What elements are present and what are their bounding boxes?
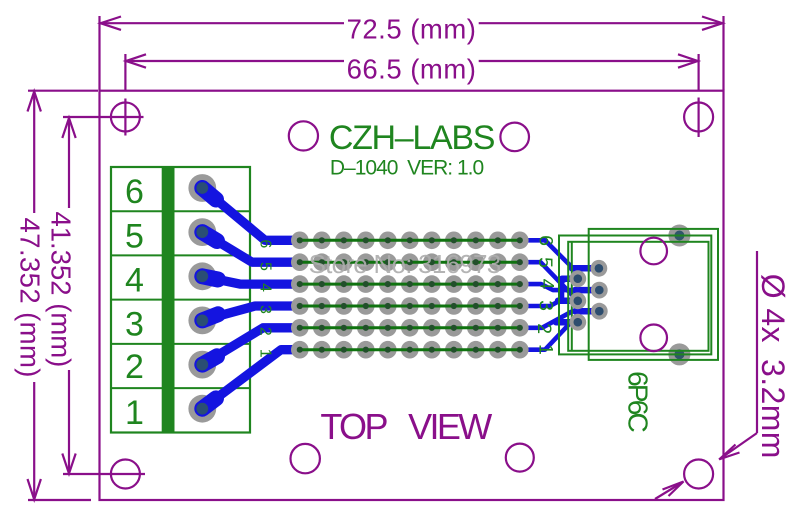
svg-text:2: 2 <box>257 327 274 336</box>
wire: dim line 66.5 right segment <box>479 60 697 62</box>
wire: second leader from board edge <box>655 483 682 500</box>
svg-text:CZH–LABS: CZH–LABS <box>329 119 495 157</box>
wire: dim line 41.352 top segment <box>68 121 70 208</box>
svg-text:4: 4 <box>257 283 274 292</box>
mounting hole top-right <box>684 103 713 132</box>
trace row3 to pin B2 <box>520 284 600 290</box>
fiducial circle left of CZH-LABS <box>289 121 318 150</box>
jack mounting pad top <box>668 225 690 247</box>
jack inner body rect <box>568 242 708 351</box>
terminal pads gray <box>188 174 216 423</box>
trace from terminal 3 to row 4 <box>202 306 300 320</box>
trace row6 to pin A3 <box>520 322 578 350</box>
jack post hole bottom <box>640 325 667 352</box>
pad grid drill centers <box>297 237 523 353</box>
svg-text:6P6C: 6P6C <box>623 371 654 432</box>
mounting hole bottom-left <box>111 460 140 489</box>
wire: dim line 41.352 bottom segment <box>68 370 70 470</box>
wire: left extension of 66.5 dim <box>124 54 126 91</box>
arrowhead at bottom-right hole (upper) <box>720 445 740 460</box>
wire: dim line 72.5 left segment <box>101 22 344 24</box>
arrowhead 66.5 left <box>126 54 146 67</box>
terminal block green bar <box>162 166 175 434</box>
trace from terminal 5 to row 2 <box>202 232 300 262</box>
wire: 47.352 top extension line <box>28 90 98 92</box>
svg-text:5: 5 <box>257 262 274 271</box>
svg-text:Ø 4x 3.2mm: Ø 4x 3.2mm <box>755 274 791 459</box>
row labels left (rotated) <box>257 239 274 357</box>
arrowhead 41.352 down <box>62 454 75 474</box>
svg-text:66.5 (mm): 66.5 (mm) <box>347 53 477 84</box>
fiducial circle right of CZH-LABS <box>500 123 529 152</box>
hole circle bottom-center-left <box>291 444 320 473</box>
terminal pad drill centers <box>196 182 208 415</box>
arrowhead 72.5 left <box>101 17 122 30</box>
svg-text:2: 2 <box>533 323 555 334</box>
mounting hole top-left <box>111 103 140 132</box>
svg-text:5: 5 <box>534 257 556 268</box>
jack body rect <box>559 236 711 355</box>
svg-text:6: 6 <box>125 173 144 211</box>
svg-text:4: 4 <box>536 279 558 290</box>
trace row4 to pin A2 <box>520 279 578 306</box>
svg-text:3: 3 <box>125 306 144 344</box>
wire: leader line of hole dim <box>756 251 758 433</box>
jack mounting pad bottom <box>668 343 690 365</box>
svg-text:6: 6 <box>257 239 274 248</box>
wire: right extension of 66.5 dim <box>697 54 699 91</box>
jack pin stubs <box>556 268 599 322</box>
arrowhead 41.352 up <box>62 118 75 138</box>
svg-text:2: 2 <box>125 348 144 386</box>
svg-text:1: 1 <box>257 349 274 358</box>
jack post hole top <box>640 238 667 265</box>
jack courtyard rect <box>589 229 718 360</box>
svg-text:Store No: 316973: Store No: 316973 <box>309 249 501 279</box>
svg-text:1: 1 <box>125 394 144 432</box>
arrowhead 72.5 right <box>702 17 723 30</box>
trace row1 to pin B1 <box>520 240 599 268</box>
trace from terminal 4 to row 3 <box>202 276 300 284</box>
trace from terminal 6 to row 1 <box>202 188 300 240</box>
hole circle bottom-center-right <box>506 444 534 472</box>
svg-text:72.5 (mm): 72.5 (mm) <box>347 14 477 45</box>
svg-text:1: 1 <box>535 344 557 355</box>
jack pin row line <box>571 242 573 351</box>
arrowhead 47.352 up <box>28 92 41 112</box>
trace from terminal 1 to row 6 <box>202 350 300 409</box>
svg-text:47.352 (mm): 47.352 (mm) <box>14 218 45 378</box>
trace row2 to pin A1 <box>520 262 578 301</box>
arrowhead 47.352 down <box>28 479 41 500</box>
svg-text:3: 3 <box>257 305 274 314</box>
svg-text:5: 5 <box>125 217 144 255</box>
wire: left extension line of 72.5 dim <box>98 16 100 90</box>
wire: 47.352 bottom extension line <box>28 499 91 501</box>
svg-text:D–1040 VER: 1.0: D–1040 VER: 1.0 <box>330 157 484 180</box>
row jumper wires (green) <box>297 240 522 349</box>
jack pin pads <box>569 260 607 331</box>
terminal block row dividers <box>111 210 250 212</box>
wire: dim line 47.352 top segment <box>33 92 35 213</box>
row labels right near jack (rotated) <box>533 235 558 355</box>
svg-text:41.352 (mm): 41.352 (mm) <box>45 211 76 367</box>
trace from terminal 2 to row 5 <box>202 328 300 365</box>
teardrop stubs at terminal pads <box>202 188 218 409</box>
wire: dim line 66.5 left segment <box>127 60 344 62</box>
mounting hole bottom-right <box>684 460 713 489</box>
wire: right extension line of 72.5 dim <box>722 16 724 90</box>
svg-text:6: 6 <box>535 235 557 246</box>
arrowhead 66.5 right <box>678 54 698 67</box>
terminal block body <box>111 167 250 433</box>
svg-text:4: 4 <box>125 262 144 300</box>
wire: dim line 72.5 right segment <box>479 22 722 24</box>
trace row5 to pin B3 <box>520 311 600 328</box>
board outline <box>100 91 724 500</box>
wire: dim line 47.352 bottom segment <box>33 382 35 499</box>
svg-text:3: 3 <box>535 300 557 311</box>
svg-text:TOP VIEW: TOP VIEW <box>320 406 492 447</box>
arrowhead at bottom-right hole (lower) <box>663 482 684 497</box>
